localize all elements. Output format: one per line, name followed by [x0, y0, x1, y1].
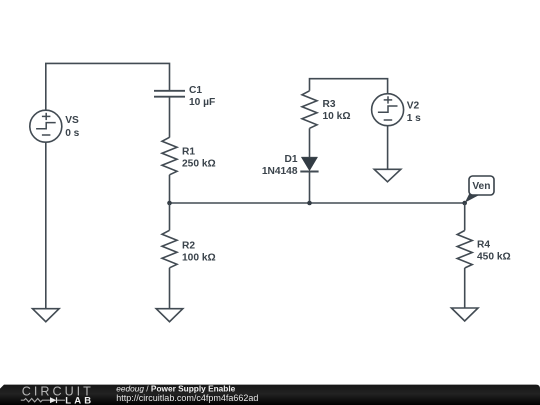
svg-text:100 kΩ: 100 kΩ: [182, 253, 216, 264]
svg-text:C1: C1: [189, 85, 202, 96]
junction: D1/bus: [307, 201, 312, 206]
node flag Ven: [465, 176, 494, 203]
svg-text:R4: R4: [477, 240, 490, 251]
resistor R4: [457, 231, 510, 269]
voltage source VS: [30, 110, 80, 142]
svg-text:D1: D1: [284, 154, 297, 165]
svg-text:1 s: 1 s: [407, 113, 421, 124]
svg-text:10 kΩ: 10 kΩ: [323, 111, 351, 122]
wire: VS to ground: [45, 142, 47, 309]
svg-text:eedoug / Power Supply Enable: eedoug / Power Supply Enable: [116, 383, 235, 393]
junction: R1/R2/bus: [167, 201, 172, 206]
svg-text:http://circuitlab.com/c4fpm4fa: http://circuitlab.com/c4fpm4fa662ad: [116, 393, 258, 403]
logo squiggle (resistor + diode): [21, 397, 65, 403]
wire: R3 to D1: [309, 128, 311, 157]
svg-text:250 kΩ: 250 kΩ: [182, 159, 216, 170]
svg-text:Ven: Ven: [472, 181, 490, 192]
resistor R3: [302, 91, 351, 129]
wire: VS top lead + top rail to C1 branch: [46, 63, 170, 110]
ground (V2): [374, 169, 401, 182]
wire: V2 to ground: [387, 126, 389, 170]
resistor R2: [162, 230, 216, 267]
junction: node Ven: [462, 201, 467, 206]
ground (R2): [156, 309, 183, 322]
svg-text:10 µF: 10 µF: [189, 97, 215, 108]
wire: node Ven to R4: [464, 203, 466, 231]
svg-text:R1: R1: [182, 146, 195, 157]
ground (VS): [33, 309, 60, 322]
svg-text:R3: R3: [323, 99, 336, 110]
footer bar: [0, 385, 540, 405]
wire: D1 to bus: [309, 172, 311, 204]
wire: R3 top rail to V2: [310, 79, 388, 94]
svg-text:0 s: 0 s: [65, 128, 79, 139]
wire: bus to R2: [169, 203, 171, 230]
resistor R1: [162, 137, 216, 175]
capacitor C1: [154, 85, 215, 108]
svg-text:VS: VS: [65, 115, 79, 126]
svg-text:V2: V2: [407, 100, 420, 111]
svg-text:R2: R2: [182, 241, 195, 252]
wire: R4 to ground: [464, 268, 466, 308]
wire: R1 to bus: [169, 175, 171, 203]
wire: R2 to ground: [169, 268, 171, 309]
svg-text:LAB: LAB: [65, 395, 94, 405]
svg-text:450 kΩ: 450 kΩ: [477, 252, 511, 263]
diode D1: [262, 154, 319, 177]
voltage source V2: [372, 94, 422, 126]
wire: main bus (node Ven): [170, 202, 465, 204]
svg-text:1N4148: 1N4148: [262, 166, 298, 177]
ground (R4): [451, 308, 478, 321]
wire: C1 to R1: [169, 97, 171, 138]
